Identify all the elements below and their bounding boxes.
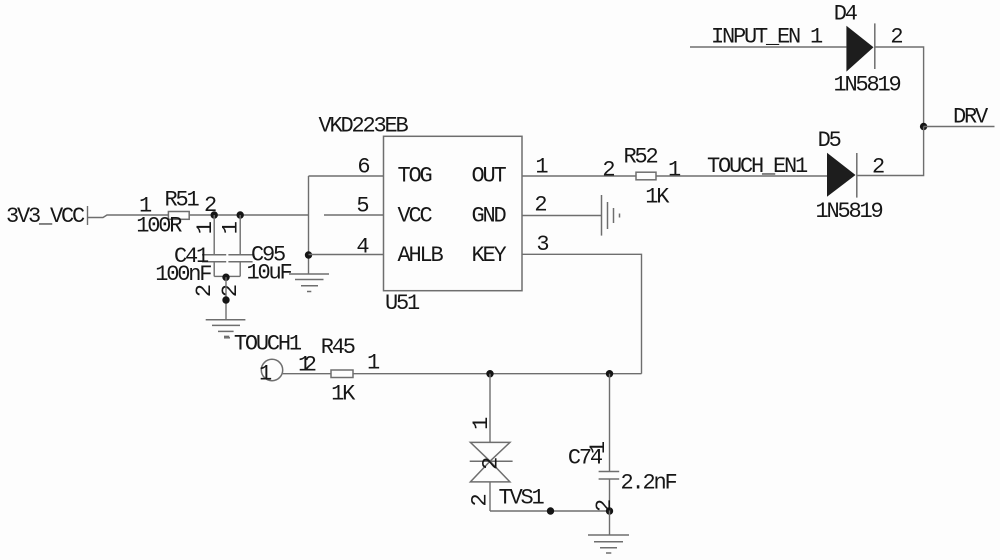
wire node column vertical	[308, 176, 310, 274]
wire R52 to D5 / net TOUCH_EN1	[656, 154, 827, 179]
svg-text:INPUT_EN: INPUT_EN	[711, 24, 800, 49]
svg-text:OUT: OUT	[472, 164, 507, 189]
svg-text:100R: 100R	[136, 213, 182, 238]
svg-text:6: 6	[357, 154, 369, 179]
svg-text:1N5819: 1N5819	[816, 199, 883, 224]
svg-text:TOG: TOG	[398, 164, 432, 189]
junction dot above ground	[222, 296, 229, 303]
junction dot bottom mid	[547, 507, 554, 514]
wire GND pin 2	[522, 215, 602, 217]
capacitor C74	[568, 374, 677, 512]
net INPUT_EN label	[711, 24, 823, 49]
svg-text:10uF: 10uF	[247, 260, 292, 285]
svg-text:U51: U51	[385, 291, 420, 316]
junction dot TVS branch	[486, 370, 493, 377]
svg-text:TVS1: TVS1	[499, 486, 545, 511]
wire TOUCH1 to R45	[283, 352, 331, 377]
wire INPUT_EN to D4	[690, 46, 846, 48]
wire D4 to corner	[875, 47, 924, 127]
node DRV junction dot	[920, 123, 927, 130]
svg-text:1: 1	[668, 157, 681, 182]
wire R51 to node column	[189, 214, 308, 216]
port 3V3_VCC	[6, 204, 88, 229]
wire OUT pin 1 to R52	[522, 175, 636, 177]
svg-text:1: 1	[586, 441, 611, 454]
junction dot C74 branch	[606, 370, 613, 377]
svg-text:100nF: 100nF	[155, 262, 211, 287]
ground (below node column)	[289, 274, 329, 292]
svg-text:3: 3	[536, 232, 548, 257]
junction dot C95 top	[237, 211, 244, 218]
wire caps to ground	[225, 277, 227, 319]
ground (bottom)	[588, 535, 629, 553]
svg-text:2: 2	[479, 458, 504, 470]
resistor R45	[321, 335, 380, 407]
resistor R51	[136, 188, 216, 239]
wire R45 to key column	[353, 373, 642, 375]
junction dot caps bottom	[222, 274, 229, 281]
svg-text:1N5819: 1N5819	[834, 73, 901, 98]
resistor R52	[602, 144, 681, 209]
svg-text:2: 2	[602, 157, 614, 182]
svg-text:R45: R45	[321, 335, 355, 360]
svg-text:2: 2	[218, 285, 243, 297]
connector TOUCH1	[224, 331, 302, 386]
svg-text:D4: D4	[834, 1, 858, 26]
junction dot bottom at C74	[606, 507, 613, 514]
wire VCC pin 5 stub	[324, 214, 383, 216]
wire TOG pin 6	[309, 175, 384, 177]
svg-text:TOUCH1: TOUCH1	[234, 331, 302, 356]
wire TVS1 to C74 bottom	[490, 510, 610, 512]
node A junction dot	[305, 251, 312, 258]
svg-text:2: 2	[192, 285, 217, 297]
wire C74 to ground	[609, 511, 611, 535]
ground (below C41/C95)	[206, 320, 246, 337]
capacitor C95	[218, 215, 291, 297]
svg-text:KEY: KEY	[472, 243, 507, 268]
svg-text:2: 2	[592, 500, 617, 512]
svg-text:VKD223EB: VKD223EB	[319, 114, 409, 139]
svg-text:2: 2	[304, 352, 316, 377]
wire KEY pin 3 down to key net	[522, 254, 642, 373]
svg-text:D5: D5	[818, 128, 841, 153]
wire 3V3_VCC to R51	[88, 215, 169, 218]
svg-text:TOUCH_EN1: TOUCH_EN1	[707, 154, 808, 179]
svg-text:VCC: VCC	[398, 204, 433, 229]
svg-text:2: 2	[534, 192, 546, 217]
svg-text:2: 2	[468, 495, 493, 507]
svg-text:1K: 1K	[331, 381, 356, 406]
svg-text:R51: R51	[165, 188, 200, 213]
diode D4 1N5819	[834, 1, 903, 97]
svg-text:2.2nF: 2.2nF	[621, 471, 677, 496]
svg-text:1K: 1K	[645, 185, 670, 210]
wire + net DRV	[924, 104, 995, 129]
IC U51 VKD223EB	[319, 114, 549, 316]
transient suppressor TVS1	[468, 374, 545, 511]
svg-text:GND: GND	[472, 204, 507, 229]
svg-text:1: 1	[259, 361, 272, 386]
wire D5 to corner up to DRV	[857, 127, 924, 176]
svg-text:5: 5	[356, 193, 368, 218]
svg-text:1: 1	[367, 351, 380, 376]
svg-text:4: 4	[356, 234, 369, 259]
ground (GND pin, sideways)	[602, 195, 620, 236]
wire AHLB pin 4	[309, 254, 384, 256]
junction dot C41 top	[211, 211, 218, 218]
svg-text:2: 2	[890, 24, 902, 49]
svg-text:3V3_VCC: 3V3_VCC	[6, 204, 85, 229]
svg-text:1: 1	[810, 24, 823, 49]
svg-text:DRV: DRV	[953, 104, 989, 129]
diode D5 1N5819	[816, 128, 885, 224]
capacitor C41	[155, 215, 226, 297]
svg-text:R52: R52	[624, 144, 658, 169]
svg-text:AHLB: AHLB	[398, 243, 444, 268]
